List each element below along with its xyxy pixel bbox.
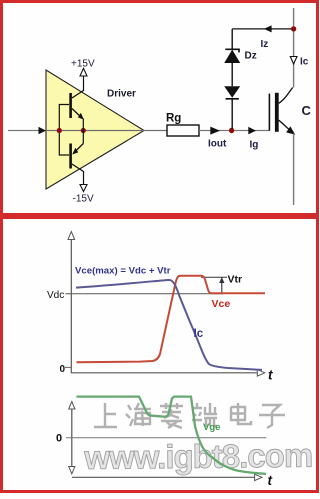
label Dz <box>245 51 257 62</box>
chart1 annotation Vce(max) <box>75 265 171 276</box>
arrow Iout <box>208 127 227 150</box>
svg-text:Vtr: Vtr <box>228 274 243 286</box>
子 <box>259 405 285 428</box>
Driver label <box>107 89 136 100</box>
wire base bus <box>59 105 69 156</box>
svg-text:Rg: Rg <box>166 113 181 125</box>
transistor Q2 (PNP lower) <box>69 131 83 172</box>
label C <box>302 103 312 118</box>
svg-text:Ic: Ic <box>300 57 309 68</box>
arrow Ic <box>290 57 308 68</box>
svg-text:t: t <box>268 368 273 383</box>
端 <box>192 403 217 427</box>
transistor Q1 (NPN upper) <box>69 91 84 131</box>
zener D2 (lower, cathode down) <box>224 86 240 129</box>
svg-text:Driver: Driver <box>107 89 136 100</box>
node rail junction <box>291 26 296 31</box>
chart1 peak level line <box>201 276 227 278</box>
arrow Iz <box>261 25 272 50</box>
transistor Q3 IGBT <box>269 88 295 135</box>
chart2 zero level line <box>66 437 266 439</box>
wire collector rail <box>293 8 295 88</box>
svg-text:Vce: Vce <box>212 298 231 310</box>
svg-text:Ic: Ic <box>194 328 204 340</box>
watermark line1 (drawn CJK strokes) <box>94 403 285 428</box>
svg-text:Dz: Dz <box>245 51 257 62</box>
curve Vge (green) <box>77 397 267 474</box>
wire Rg to gate <box>199 130 269 132</box>
svg-text:0: 0 <box>60 364 66 375</box>
chart1 Vdc label <box>47 290 64 301</box>
input arrowhead <box>39 127 47 134</box>
svg-text:C: C <box>302 103 312 118</box>
arrow Ig <box>248 127 258 151</box>
svg-text:Iout: Iout <box>208 139 227 150</box>
svg-text:t: t <box>268 473 273 488</box>
svg-text:0: 0 <box>56 433 62 445</box>
label Ic <box>194 328 204 340</box>
curve Vce (red) <box>77 276 266 363</box>
chart1 y-axis <box>68 232 75 374</box>
svg-text:+15V: +15V <box>71 59 95 70</box>
svg-text:Iz: Iz <box>261 39 269 50</box>
chart1 x-axis <box>71 368 273 383</box>
菱 <box>160 403 183 428</box>
zener D1 (upper, cathode up) <box>224 29 240 86</box>
svg-text:Vdc: Vdc <box>47 290 64 301</box>
svg-text:Vge: Vge <box>203 422 220 433</box>
node emitter (junction dot) <box>81 128 86 133</box>
svg-text:Ig: Ig <box>250 140 259 151</box>
chart1 Vdc level line <box>66 293 224 295</box>
panel frame top (red border of schematic panel) <box>2 2 318 215</box>
海 <box>126 403 151 426</box>
wire emitter rail <box>293 133 295 205</box>
op-amp U1 driver triangle <box>46 70 144 189</box>
svg-text:Vce(max) = Vdc + Vtr: Vce(max) = Vdc + Vtr <box>75 265 171 276</box>
svg-text:www.igbt8.com: www.igbt8.com <box>83 437 312 476</box>
resistor Rg <box>166 113 199 137</box>
-15V supply <box>73 171 94 205</box>
+15V supply <box>71 59 95 92</box>
wire input to driver <box>8 130 40 132</box>
chart1 Vtr arrow <box>219 274 242 293</box>
panel frame bottom (red border of waveform panel) <box>2 218 318 492</box>
wire clamp top <box>232 28 293 30</box>
电 <box>231 403 251 424</box>
watermark line2 www.igbt8.com <box>83 437 312 476</box>
node gate junction <box>229 128 234 133</box>
label Vge <box>203 422 220 433</box>
chart2 x-axis <box>72 473 273 488</box>
上 <box>94 403 117 427</box>
chart2 y-axis double arrow <box>69 402 75 474</box>
node input (junction dot) <box>57 128 62 133</box>
svg-text:-15V: -15V <box>73 194 94 205</box>
chart2 0 label <box>56 433 62 445</box>
wire center line through driver <box>46 130 167 132</box>
chart1 0 label <box>60 364 72 375</box>
label Vce <box>212 298 231 310</box>
curve Ic (blue) <box>76 280 262 370</box>
